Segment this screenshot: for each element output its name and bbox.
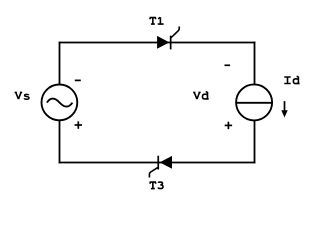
minus sign of Vd xyxy=(225,64,231,66)
label Vd xyxy=(193,92,209,99)
AC source Vs sine wave xyxy=(47,99,73,107)
label Id xyxy=(284,77,299,84)
thyristor T1 gate lead xyxy=(171,27,180,39)
label T3 xyxy=(150,182,163,189)
Id direction arrow xyxy=(281,101,287,117)
current source horizontal bar xyxy=(236,102,272,104)
label T1 xyxy=(150,17,164,24)
minus sign of Vs xyxy=(75,79,81,81)
AC source Vs circle xyxy=(42,85,78,121)
plus sign of Vd xyxy=(225,122,232,130)
wire bottom horizontal xyxy=(59,162,256,164)
wire top horizontal xyxy=(59,42,256,44)
thyristor T3 cathode bar xyxy=(157,156,159,170)
thyristor T1 cathode bar xyxy=(170,36,172,50)
plus sign of Vs xyxy=(75,121,82,129)
thyristor T1 anode triangle xyxy=(157,36,169,49)
thyristor T3 gate lead xyxy=(149,167,158,177)
current source Id circle xyxy=(236,84,272,120)
wire left vertical xyxy=(59,42,61,164)
thyristor T3 anode triangle xyxy=(160,156,172,169)
wire right vertical xyxy=(254,42,256,164)
label Vs xyxy=(15,92,29,99)
